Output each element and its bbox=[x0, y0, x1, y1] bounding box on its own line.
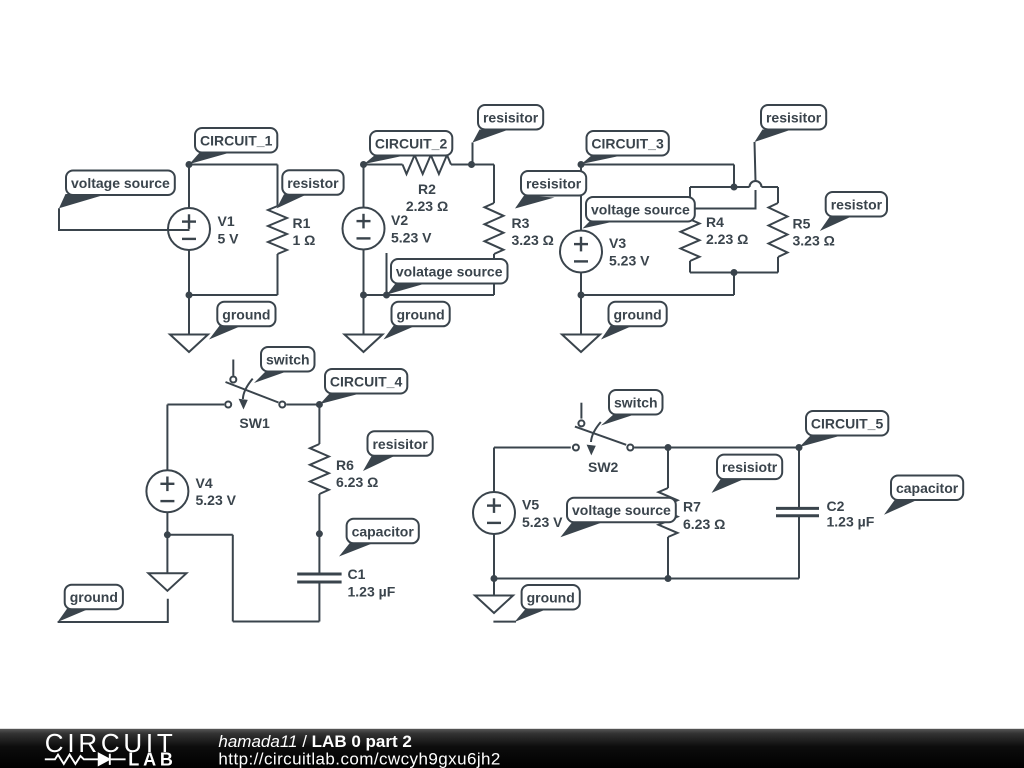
voltage source V1 bbox=[168, 208, 210, 250]
resistor R4 top lead bbox=[689, 187, 691, 211]
resistor R1 top lead bbox=[277, 165, 279, 207]
svg-text:5.23 V: 5.23 V bbox=[522, 514, 563, 530]
callout resistor (R5) bbox=[820, 192, 887, 231]
junction bbox=[578, 292, 585, 299]
svg-text:ground: ground bbox=[527, 590, 575, 606]
svg-text:1.23 µF: 1.23 µF bbox=[348, 584, 396, 600]
resistor R3 body bbox=[485, 203, 504, 254]
svg-text:R7: R7 bbox=[683, 499, 701, 515]
C2 bottom lead bbox=[798, 516, 800, 579]
svg-text:switch: switch bbox=[614, 395, 658, 411]
CircuitLab logo resistor-diode glyph bbox=[45, 754, 126, 765]
capacitor C1 plates bbox=[297, 574, 341, 582]
junction R2-R3 bbox=[468, 161, 475, 168]
junction bbox=[491, 575, 498, 582]
wire bbox=[494, 447, 571, 449]
wire bbox=[762, 186, 779, 188]
V2 bottom lead bbox=[363, 250, 365, 296]
ground (circuit 5) bbox=[475, 596, 513, 614]
wire bbox=[733, 273, 735, 296]
voltage source V5 bbox=[473, 492, 515, 534]
ground (circuit 4) bbox=[148, 573, 186, 591]
svg-text:switch: switch bbox=[266, 352, 310, 368]
svg-text:resistor: resistor bbox=[831, 197, 883, 213]
voltage source V3 bbox=[560, 231, 602, 273]
svg-text:R4: R4 bbox=[706, 214, 724, 230]
callout ground (circuit 1) bbox=[209, 302, 276, 340]
V1 top lead bbox=[188, 165, 190, 209]
resistor R1 body bbox=[268, 206, 287, 254]
wire bbox=[494, 578, 799, 580]
callout ground (circuit 5) bbox=[493, 585, 579, 622]
resistor R5 body bbox=[769, 203, 788, 257]
switch SW2 bbox=[573, 403, 633, 456]
resistor R2 body bbox=[403, 155, 452, 174]
resistor R4 bottom lead bbox=[689, 261, 691, 273]
svg-text:ground: ground bbox=[396, 306, 444, 322]
svg-text:SW1: SW1 bbox=[239, 415, 270, 431]
V3 bottom lead bbox=[580, 273, 582, 296]
wire bbox=[581, 164, 734, 166]
ground (circuit 3) bbox=[562, 335, 600, 353]
resistor R7 body bbox=[659, 488, 678, 537]
svg-text:CIRCUIT_2: CIRCUIT_2 bbox=[375, 136, 448, 152]
callout resistor (R1) bbox=[277, 170, 344, 208]
voltage source V4 bbox=[146, 470, 188, 512]
callout voltage source (V1) bbox=[59, 171, 190, 231]
ground lead bbox=[188, 295, 190, 335]
resistor R6 top lead bbox=[318, 405, 320, 445]
wire bbox=[189, 294, 278, 296]
wire bbox=[634, 447, 799, 449]
svg-text:6.23 Ω: 6.23 Ω bbox=[336, 474, 378, 490]
callout capacitor (C1) bbox=[339, 519, 419, 557]
junction bbox=[731, 184, 738, 191]
svg-text:5.23 V: 5.23 V bbox=[609, 253, 650, 269]
svg-text:resisitor: resisitor bbox=[483, 110, 539, 126]
svg-text:volatage source: volatage source bbox=[396, 264, 503, 280]
svg-text:CIRCUIT_3: CIRCUIT_3 bbox=[591, 136, 664, 152]
wire bbox=[167, 534, 232, 536]
callout resisitor (R4) bbox=[696, 105, 827, 209]
ground lead bbox=[166, 535, 168, 574]
svg-text:CIRCUIT_5: CIRCUIT_5 bbox=[811, 416, 884, 432]
callout volatage source (V2) bbox=[387, 253, 508, 295]
callout ground (circuit 4) bbox=[58, 585, 168, 622]
wire bbox=[167, 404, 224, 406]
svg-text:resisitor: resisitor bbox=[526, 176, 582, 192]
callout voltage source (V3) bbox=[583, 197, 695, 229]
svg-text:R5: R5 bbox=[793, 216, 811, 232]
wire bbox=[364, 294, 495, 296]
ground lead bbox=[580, 295, 582, 335]
svg-text:http://circuitlab.com/cwcyh9gx: http://circuitlab.com/cwcyh9gxu6jh2 bbox=[218, 750, 500, 768]
C1 bottom lead bbox=[318, 582, 320, 622]
parallel bottom rail bbox=[690, 272, 778, 274]
svg-text:R3: R3 bbox=[512, 215, 530, 231]
junction bbox=[164, 531, 171, 538]
resistor R5 top lead bbox=[777, 187, 779, 203]
V5 bottom lead bbox=[493, 534, 495, 579]
resistor R7 bottom lead bbox=[667, 537, 669, 579]
svg-text:6.23 Ω: 6.23 Ω bbox=[683, 516, 725, 532]
svg-text:2.23 Ω: 2.23 Ω bbox=[706, 231, 748, 247]
resistor R5 bottom lead bbox=[777, 257, 779, 273]
resistor R1 bottom lead bbox=[277, 254, 279, 295]
junction R7 top bbox=[665, 444, 672, 451]
svg-text:ground: ground bbox=[222, 306, 270, 322]
voltage source V2 bbox=[343, 208, 385, 250]
resistor R7 top lead bbox=[667, 448, 669, 489]
junction bbox=[383, 292, 390, 299]
node CIRCUIT_2 bbox=[360, 161, 367, 168]
svg-text:V3: V3 bbox=[609, 235, 626, 251]
ground (circuit 2) bbox=[345, 335, 383, 353]
V1 bottom lead bbox=[188, 250, 190, 295]
resistor R6 body bbox=[310, 444, 329, 494]
svg-text:LAB: LAB bbox=[128, 750, 173, 768]
callout resisitor (R3) bbox=[515, 171, 586, 209]
svg-text:C1: C1 bbox=[348, 566, 366, 582]
junction bbox=[731, 269, 738, 276]
V4 top lead bbox=[166, 405, 168, 471]
svg-text:V4: V4 bbox=[196, 475, 213, 491]
V2 top lead bbox=[363, 165, 365, 208]
svg-text:R6: R6 bbox=[336, 457, 354, 473]
resistor R3 bottom lead bbox=[493, 254, 495, 295]
junction bbox=[316, 530, 323, 537]
wire bbox=[232, 535, 234, 622]
V4 bottom lead bbox=[166, 512, 168, 535]
svg-text:capacitor: capacitor bbox=[896, 480, 959, 496]
capacitor C2 plates bbox=[776, 508, 819, 515]
wire bbox=[189, 164, 278, 166]
callout switch (SW2) bbox=[601, 390, 663, 426]
svg-text:voltage source: voltage source bbox=[591, 202, 690, 218]
junction bbox=[186, 292, 193, 299]
callout CIRCUIT_5 bbox=[800, 411, 889, 447]
junction bbox=[360, 292, 367, 299]
svg-text:3.23 Ω: 3.23 Ω bbox=[512, 232, 554, 248]
svg-text:ground: ground bbox=[70, 589, 118, 605]
svg-text:1 Ω: 1 Ω bbox=[293, 232, 316, 248]
svg-text:V1: V1 bbox=[218, 213, 235, 229]
svg-text:hamada11 / LAB 0 part 2: hamada11 / LAB 0 part 2 bbox=[218, 732, 411, 751]
C2 top lead bbox=[798, 448, 800, 508]
callout capacitor (C2) bbox=[884, 476, 963, 515]
wire bbox=[364, 164, 403, 166]
callout ground (circuit 2) bbox=[384, 302, 450, 340]
svg-text:resisitor: resisitor bbox=[372, 436, 428, 452]
callout CIRCUIT_2 bbox=[364, 131, 452, 164]
wire bbox=[451, 164, 494, 166]
svg-text:2.23 Ω: 2.23 Ω bbox=[406, 198, 448, 214]
wire bbox=[233, 621, 320, 623]
svg-text:resisitor: resisitor bbox=[766, 110, 822, 126]
callout voltage source (V5) bbox=[560, 498, 675, 538]
svg-text:5.23 V: 5.23 V bbox=[391, 230, 432, 246]
svg-text:1.23 µF: 1.23 µF bbox=[827, 514, 875, 530]
wire bbox=[733, 165, 735, 188]
ground lead bbox=[493, 579, 495, 596]
wire bbox=[581, 294, 734, 296]
parallel top rail left bbox=[690, 186, 734, 188]
svg-text:CIRCUIT_1: CIRCUIT_1 bbox=[200, 133, 273, 149]
svg-text:resistor: resistor bbox=[287, 175, 339, 191]
svg-text:3.23 Ω: 3.23 Ω bbox=[793, 233, 835, 249]
ground (circuit 1) bbox=[170, 335, 208, 353]
node CIRCUIT_4 bbox=[316, 401, 323, 408]
resistor R6 bottom lead / C1 top lead bbox=[318, 494, 320, 573]
wire hop over leader bbox=[750, 181, 762, 187]
svg-text:5 V: 5 V bbox=[218, 231, 240, 247]
resistor R4 body bbox=[681, 211, 700, 261]
callout CIRCUIT_1 bbox=[190, 128, 278, 164]
callout CIRCUIT_4 bbox=[320, 369, 407, 404]
node CIRCUIT_1 bbox=[186, 161, 193, 168]
callout ground (circuit 3) bbox=[601, 302, 667, 340]
wire bbox=[286, 404, 319, 406]
svg-text:CIRCUIT_4: CIRCUIT_4 bbox=[330, 374, 403, 390]
V3 top lead bbox=[580, 165, 582, 231]
svg-text:V2: V2 bbox=[391, 212, 408, 228]
svg-text:R1: R1 bbox=[293, 215, 311, 231]
node CIRCUIT_3 bbox=[578, 161, 585, 168]
svg-text:ground: ground bbox=[613, 306, 661, 322]
callout resisitor (R2) bbox=[473, 105, 544, 164]
svg-text:voltage source: voltage source bbox=[71, 175, 170, 191]
svg-text:resisiotr: resisiotr bbox=[722, 459, 778, 475]
callout switch (SW1) bbox=[254, 347, 315, 383]
svg-text:C2: C2 bbox=[827, 498, 845, 514]
V5 top lead bbox=[493, 448, 495, 493]
resistor R3 top lead bbox=[493, 165, 495, 204]
junction R7 bottom bbox=[665, 575, 672, 582]
ground lead bbox=[363, 295, 365, 335]
svg-text:capacitor: capacitor bbox=[352, 523, 415, 539]
svg-text:voltage source: voltage source bbox=[572, 502, 671, 518]
callout resisiotr (R7) bbox=[712, 455, 783, 493]
svg-text:R2: R2 bbox=[418, 181, 436, 197]
callout CIRCUIT_3 bbox=[582, 131, 669, 164]
parallel top rail right bbox=[734, 186, 750, 188]
callout resisitor (R6) bbox=[363, 431, 433, 471]
svg-text:5.23 V: 5.23 V bbox=[196, 492, 237, 508]
switch SW1 bbox=[225, 360, 285, 410]
node CIRCUIT_5 bbox=[796, 444, 803, 451]
svg-text:SW2: SW2 bbox=[588, 459, 619, 475]
svg-text:V5: V5 bbox=[522, 497, 539, 513]
